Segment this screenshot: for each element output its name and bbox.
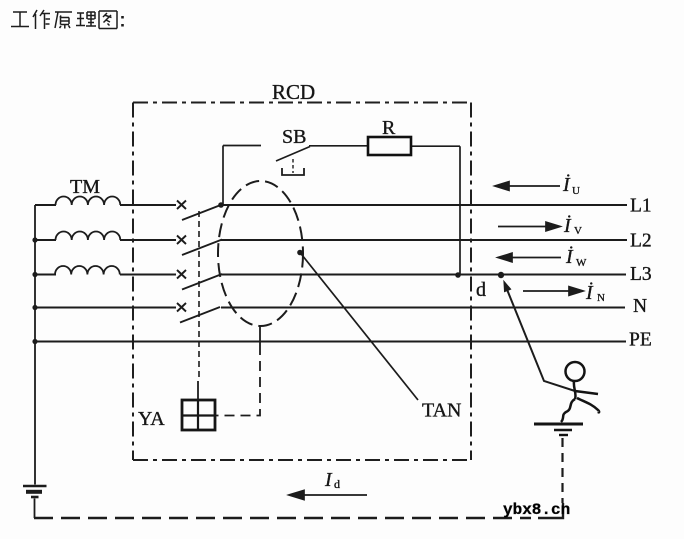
- svg-text:R: R: [382, 117, 396, 139]
- svg-text:RCD: RCD: [272, 80, 315, 104]
- svg-text:ybx8.cn: ybx8.cn: [503, 501, 570, 519]
- svg-text:İ: İ: [562, 173, 571, 196]
- svg-text:L1: L1: [630, 196, 652, 217]
- svg-text:N: N: [597, 292, 605, 304]
- svg-text:U: U: [572, 185, 580, 197]
- svg-text:İ: İ: [565, 245, 574, 268]
- svg-text:I: I: [324, 469, 333, 491]
- svg-text:TAN: TAN: [422, 400, 462, 422]
- svg-text:SB: SB: [282, 126, 306, 148]
- svg-text:L2: L2: [630, 231, 652, 252]
- svg-text:L3: L3: [630, 264, 652, 285]
- svg-text:İ: İ: [563, 214, 572, 237]
- svg-text:PE: PE: [629, 330, 652, 351]
- svg-text:YA: YA: [138, 408, 165, 430]
- svg-text:d: d: [476, 279, 486, 301]
- svg-text:N: N: [633, 296, 647, 317]
- svg-text:TM: TM: [70, 176, 100, 198]
- svg-text:V: V: [574, 225, 582, 237]
- svg-text:d: d: [334, 477, 340, 491]
- svg-text:İ: İ: [585, 281, 594, 304]
- svg-text:W: W: [576, 257, 587, 269]
